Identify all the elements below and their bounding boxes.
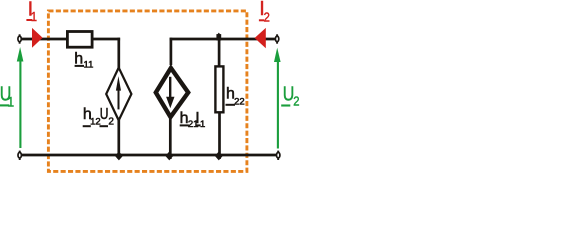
svg-text:1: 1: [7, 94, 14, 110]
svg-text:11: 11: [84, 59, 94, 70]
svg-text:1: 1: [31, 9, 38, 24]
svg-text:1: 1: [200, 119, 205, 130]
svg-text:2: 2: [293, 94, 299, 109]
svg-text:2: 2: [264, 10, 270, 25]
svg-text:2: 2: [108, 117, 114, 128]
svg-text:h: h: [74, 50, 83, 67]
svg-text:U: U: [100, 105, 109, 123]
svg-text:22: 22: [234, 97, 245, 108]
